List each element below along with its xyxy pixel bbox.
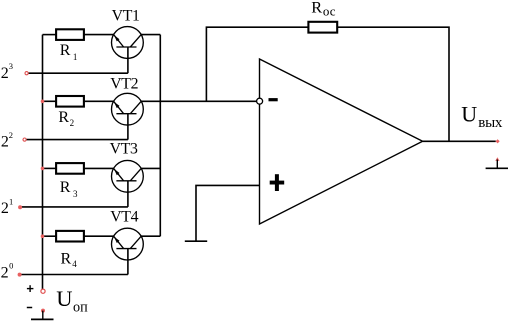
ground: U_out reference (486, 157, 508, 168)
ground: U_op minus (31, 309, 54, 320)
wire: bus to R4 (43, 235, 57, 237)
wire: R1 to VT1 emitter (84, 34, 114, 36)
transistor VT4 (112, 228, 144, 260)
wire: R4 to VT4 emitter (84, 235, 114, 237)
svg-text:2: 2 (1, 200, 9, 217)
svg-text:0: 0 (9, 260, 13, 270)
wire: feedback from inverting node up (206, 27, 308, 101)
wire: input line 2^2 to VT2 base (26, 139, 128, 141)
node: bus junction at R2 (41, 100, 45, 104)
wire: collector bus (159, 35, 161, 237)
wire: VT1 base lead (127, 47, 129, 73)
label: minus sign U_op (27, 307, 32, 309)
svg-text:U: U (461, 102, 477, 127)
svg-text:вых: вых (478, 115, 503, 131)
wire: VT3 base lead (127, 181, 129, 207)
wire: VT2 base lead (127, 114, 129, 140)
wire: input line 2^0 to VT4 base (21, 274, 128, 276)
node: input terminal 2^0 (18, 273, 22, 277)
wire: input line 2^3 to VT1 base (28, 72, 128, 74)
wire: Roc to output (337, 27, 449, 141)
wire: non-inverting input (196, 185, 260, 241)
node: U_op plus terminal (41, 289, 45, 293)
svg-text:оп: оп (73, 300, 88, 316)
wire: VT4 base lead (127, 249, 129, 275)
svg-text:VT2: VT2 (110, 75, 138, 92)
resistor Roc (308, 22, 337, 33)
wire: R2 to VT2 emitter (84, 100, 114, 102)
node: input terminal 2^3 (25, 72, 28, 75)
svg-text:2: 2 (1, 264, 9, 281)
transistor VT1 (112, 27, 144, 59)
wire: bus to R2 (43, 100, 57, 102)
svg-text:1: 1 (73, 52, 78, 62)
resistor R2 (56, 96, 84, 107)
wire: R3 to VT3 emitter (84, 167, 114, 169)
wire: VT3 collector to bus (141, 167, 161, 169)
svg-text:R: R (60, 179, 71, 196)
ground: non-inverting input (185, 240, 207, 242)
node: U_out terminal (496, 139, 500, 143)
svg-text:R: R (311, 0, 322, 17)
svg-text:1: 1 (9, 196, 13, 206)
transistor VT2 (112, 93, 144, 125)
svg-text:2: 2 (9, 130, 13, 140)
wire: VT1 collector to bus (141, 34, 161, 36)
resistor R1 (56, 29, 84, 40)
svg-text:U: U (56, 286, 72, 311)
node: bus junction at R3 (41, 167, 45, 171)
pin: inverting input "-" (269, 98, 278, 101)
svg-text:3: 3 (73, 189, 78, 199)
label: plus sign U_op (27, 285, 34, 292)
svg-text:R: R (58, 109, 69, 126)
resistor R3 (56, 163, 84, 174)
wire: bus to R1 (43, 34, 57, 36)
resistor R4 (56, 231, 84, 242)
svg-text:2: 2 (1, 65, 9, 82)
wire: left U_op bus (42, 35, 44, 289)
svg-text:3: 3 (9, 61, 13, 71)
svg-text:4: 4 (72, 259, 77, 269)
svg-text:R: R (61, 251, 72, 268)
svg-text:VT3: VT3 (110, 141, 138, 158)
svg-text:2: 2 (70, 118, 75, 128)
wire: bus to R3 (43, 167, 57, 169)
wire: input line 2^1 to VT3 base (21, 206, 128, 208)
transistor VT3 (112, 160, 144, 192)
svg-text:ос: ос (323, 4, 336, 19)
wire: op-amp output (423, 140, 496, 142)
node: input terminal 2^1 (18, 205, 22, 209)
wire: VT2 collector to op-amp inverting input (141, 100, 260, 102)
wire: VT4 collector to bus (141, 235, 161, 237)
svg-text:R: R (60, 42, 71, 59)
svg-text:2: 2 (1, 134, 9, 151)
svg-text:VT4: VT4 (110, 208, 138, 225)
pin: non-inverting input "+" (270, 174, 285, 191)
node: bus junction at R4 (41, 234, 45, 238)
op-amp U1 (260, 59, 423, 224)
svg-text:VT1: VT1 (112, 7, 140, 24)
node: inverting input junction (257, 98, 263, 104)
node: input terminal 2^2 (23, 138, 26, 141)
